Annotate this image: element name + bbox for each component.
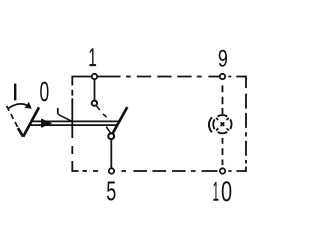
- left parenthesis of optional lamp: [209, 117, 212, 132]
- enclosure dash-dot top edge: [72, 76, 246, 78]
- indicator lamp dashed circle arc right: [230, 119, 231, 129]
- lamp cross rim dash SW: [216, 128, 218, 130]
- enclosure dash-dot bottom edge: [72, 170, 246, 172]
- terminal 9 circle: [220, 74, 225, 79]
- label terminal 10 digit 1: [213, 182, 218, 201]
- indicator lamp dashed circle arc left: [213, 119, 214, 129]
- motion arc arrow: [8, 104, 28, 109]
- enclosure dash-dot left edge: [71, 76, 73, 172]
- enclosure dash-dot right edge: [245, 76, 247, 172]
- dashed lamp feed wire from terminal 9: [222, 85, 224, 114]
- label terminal 1: [89, 48, 96, 66]
- wire pivot to terminal 5: [110, 139, 112, 171]
- lamp cross centre x stroke 1: [221, 122, 225, 126]
- terminal 5 circle: [109, 168, 114, 173]
- dashed lamp feed wire to terminal 10: [222, 138, 224, 165]
- dashed blade position link dash a: [96, 106, 99, 110]
- mechanism support solid segment on left edge: [71, 98, 73, 138]
- push rod arrowhead: [41, 119, 52, 128]
- indicator lamp dashed circle arc bottom: [218, 132, 228, 133]
- motion arc arrowhead: [25, 102, 32, 109]
- lamp cross rim dash SE: [227, 128, 229, 130]
- fork link to pivot: [106, 127, 110, 133]
- dashed lever position I: [7, 106, 19, 129]
- label I (position I): [14, 84, 16, 101]
- label terminal 9: [219, 50, 227, 67]
- push rod lower line: [29, 124, 118, 126]
- indicator lamp dashed circle arc top: [218, 115, 228, 116]
- lamp cross centre x stroke 2: [221, 122, 225, 126]
- lamp cross rim dash NE: [227, 118, 229, 120]
- actuator wedge stroke: [18, 128, 23, 137]
- lamp cross rim dash NW: [216, 118, 218, 120]
- switch blade (open): [113, 107, 128, 134]
- actuator lever (position 0): [23, 107, 39, 136]
- push rod upper line: [31, 120, 120, 122]
- dashed blade position link dash b: [103, 114, 107, 117]
- pivot contact circle: [108, 133, 114, 139]
- label terminal 10 digit 0: [222, 181, 231, 201]
- terminal 10 circle: [220, 168, 225, 173]
- detent diagonal: [58, 114, 72, 121]
- detent tick: [57, 108, 59, 114]
- label 0 (position 0): [40, 82, 48, 102]
- terminal 1 circle: [92, 74, 97, 79]
- label terminal 5: [107, 181, 115, 200]
- fixed contact circle: [92, 101, 97, 106]
- wire terminal 1 to contact: [94, 77, 96, 102]
